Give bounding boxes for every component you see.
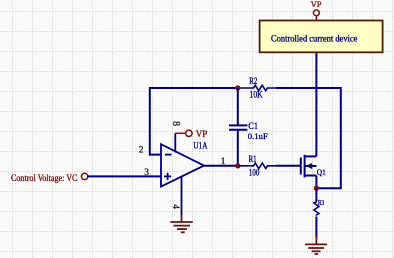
svg-text:0.1uF: 0.1uF xyxy=(248,131,268,141)
wire: text frame bottom down to MOSFET drain xyxy=(315,52,317,156)
Q1 bulk arrow xyxy=(306,163,312,169)
svg-text:VP: VP xyxy=(196,129,208,139)
svg-text:10K: 10K xyxy=(250,89,264,99)
op-amp U1A xyxy=(161,144,204,186)
wire: pin2 feedback loop (vertical + top horizontal to node A) xyxy=(150,88,238,155)
wire: C1 bottom plate down to output node B xyxy=(237,130,239,166)
svg-text:1: 1 xyxy=(221,157,226,167)
svg-text:R2: R2 xyxy=(249,76,257,86)
svg-text:VP: VP xyxy=(311,0,322,9)
svg-text:100: 100 xyxy=(249,168,260,178)
node A junction dot xyxy=(235,85,240,90)
wire: R3 down to ground xyxy=(315,217,317,239)
text frame: Controlled current device xyxy=(260,21,383,53)
svg-text:R3: R3 xyxy=(318,199,325,207)
transistor Q1 (N-MOSFET) xyxy=(301,155,317,188)
ground symbol at op-amp pin 4 xyxy=(170,214,192,232)
resistor R3 (vertical) xyxy=(314,201,319,216)
VC port circle xyxy=(81,173,87,179)
wire: VP stub to text frame xyxy=(315,16,317,21)
VP top circle xyxy=(314,10,320,16)
op-amp power pin 8 xyxy=(174,133,176,152)
wire: R2 right to MOSFET source node xyxy=(276,88,341,188)
wire: source node down to R3 xyxy=(315,188,317,201)
svg-text:C1: C1 xyxy=(248,121,258,131)
power port VP at op-amp xyxy=(175,130,192,136)
source node junction dot xyxy=(314,186,319,191)
resistor R2 xyxy=(238,85,276,90)
svg-text:Controlled current device: Controlled current device xyxy=(271,34,357,44)
svg-text:2: 2 xyxy=(139,146,144,156)
wire: R1 to MOSFET gate xyxy=(276,165,301,167)
svg-text:Q1: Q1 xyxy=(317,167,326,177)
svg-text:R1: R1 xyxy=(249,154,257,164)
ground symbol at R3 xyxy=(305,236,327,254)
wire: op-amp output to node B xyxy=(204,165,238,167)
svg-text:U1A: U1A xyxy=(193,141,207,151)
resistor R1 xyxy=(238,163,276,168)
op-amp pin 4 wire down xyxy=(181,177,183,216)
wire: node A down to C1 top plate xyxy=(237,88,239,125)
svg-text:4: 4 xyxy=(170,204,180,209)
svg-text:8: 8 xyxy=(170,121,181,126)
node B junction dot xyxy=(235,163,240,168)
svg-text:Control Voltage: VC: Control Voltage: VC xyxy=(11,173,78,183)
capacitor C1 xyxy=(229,125,247,129)
wire: VC to op-amp pin 3 xyxy=(88,175,161,177)
